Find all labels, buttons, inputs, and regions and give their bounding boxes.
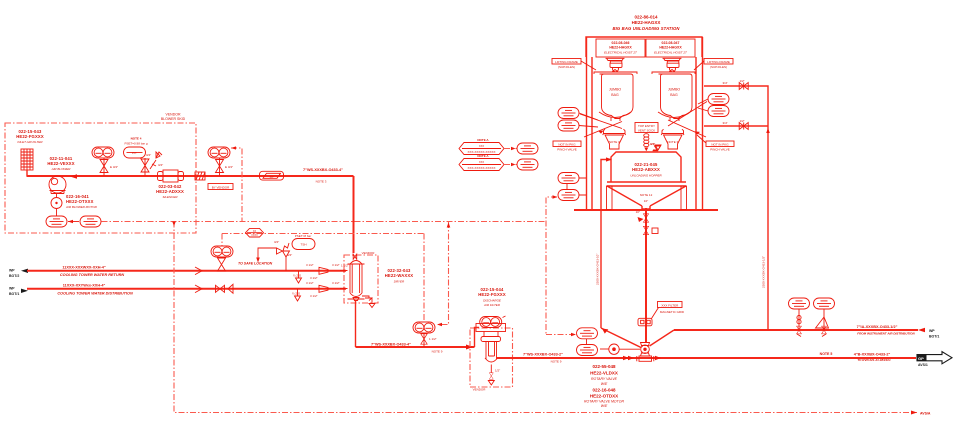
svg-text:TSH: TSH [301,243,307,247]
svg-text:XX: XX [253,230,257,233]
svg-text:JUMBO: JUMBO [668,88,681,92]
svg-text:NOTE 3: NOTE 3 [316,180,327,184]
svg-text:BOT/1: BOT/1 [9,292,19,296]
svg-text:DISCHARGE: DISCHARGE [483,299,502,303]
svg-text:3/4": 3/4" [650,142,655,146]
svg-text:2300-XXXBX-O433-1/2": 2300-XXXBX-O433-1/2" [762,256,766,288]
svg-text:3 1/2": 3 1/2" [306,263,314,267]
svg-text:022-16-048: 022-16-048 [592,388,616,393]
svg-text:022-86-014: 022-86-014 [634,15,658,20]
svg-text:HE22-FGXXX: HE22-FGXXX [16,134,44,139]
svg-text:(SUP.FILES): (SUP.FILES) [710,65,727,69]
svg-text:E 3/4": E 3/4" [225,165,233,169]
svg-text:VENT SOCK: VENT SOCK [638,128,655,132]
svg-text:1 1/2": 1 1/2" [429,337,437,341]
svg-text:PINCH VALVE: PINCH VALVE [710,148,729,152]
svg-text:4"B-XXXBX-O433-2": 4"B-XXXBX-O433-2" [854,352,891,356]
svg-text:NOTE 3: NOTE 3 [609,140,620,144]
svg-text:1 1/2": 1 1/2" [341,264,349,268]
svg-text:HE22-OTXXX: HE22-OTXXX [66,199,94,204]
svg-text:11XXX-XXXWXX-XXH-4": 11XXX-XXXWXX-XXH-4" [62,265,106,269]
svg-text:3 1/2": 3 1/2" [310,276,318,280]
svg-text:NOTE 5: NOTE 5 [820,352,833,356]
svg-text:BAG: BAG [670,93,678,97]
svg-text:LIFTING FRAME: LIFTING FRAME [707,60,730,64]
svg-text:11XXX-XXYWxx-XXH-4": 11XXX-XXYWxx-XXH-4" [63,283,106,287]
svg-text:FROM INSTRUMENT AIR DISTRIBUTI: FROM INSTRUMENT AIR DISTRIBUTION [857,332,915,336]
svg-text:W/E: W/E [601,382,608,386]
svg-text:WP: WP [929,329,935,333]
svg-text:HE22-HAGXX: HE22-HAGXX [659,46,682,50]
svg-text:3/4": 3/4" [274,240,279,244]
svg-text:ELECTRICAL HOIST 2T: ELECTRICAL HOIST 2T [654,51,688,55]
svg-text:7"WS-XXXBX-O433-4": 7"WS-XXXBX-O433-4" [303,168,343,172]
svg-text:½ 2 G: ½ 2 G [292,292,301,296]
svg-text:022-55-048: 022-55-048 [592,364,616,369]
svg-text:XXX: XXX [479,144,484,148]
svg-text:3 1/2": 3 1/2" [310,294,318,298]
svg-text:3 1/2": 3 1/2" [306,281,314,285]
svg-text:HE22-FGXXX: HE22-FGXXX [478,292,506,297]
svg-text:WP: WP [9,287,15,291]
svg-text:3/4": 3/4" [723,121,728,125]
svg-text:PIT: PIT [132,151,137,155]
svg-text:E 3/4": E 3/4" [110,165,118,169]
svg-text:3/4": 3/4" [723,81,728,85]
svg-text:3 1/2": 3 1/2" [332,281,340,285]
svg-text:W/E: W/E [601,404,608,408]
svg-text:XXX: XXX [479,160,484,164]
svg-text:½ 2 G: ½ 2 G [293,274,302,278]
svg-text:HE22-OTDXX: HE22-OTDXX [590,394,618,399]
svg-text:NOTE 12: NOTE 12 [640,193,653,197]
svg-text:GP: GP [918,356,924,361]
svg-text:PINCH VALVE: PINCH VALVE [557,148,576,152]
svg-text:BOT/2: BOT/2 [9,274,19,278]
svg-text:COOLING TOWER WATER DISTRIBUTI: COOLING TOWER WATER DISTRIBUTION [57,292,133,296]
svg-text:3/4": 3/4" [287,253,292,257]
svg-text:VENDOR: VENDOR [473,388,487,392]
svg-text:7"WS-XXXBX-O433-4": 7"WS-XXXBX-O433-4" [371,342,411,346]
svg-text:UNLOADING HOPPER: UNLOADING HOPPER [630,174,662,178]
svg-text:ROTARY VALVE: ROTARY VALVE [591,377,618,381]
svg-text:NOTE A: NOTE A [477,154,489,158]
svg-text:(SUP.FILES): (SUP.FILES) [558,65,575,69]
svg-text:VENDOR: VENDOR [166,113,181,117]
svg-text:LIFTING FRAME: LIFTING FRAME [555,60,578,64]
svg-text:3/4": 3/4" [158,163,163,167]
svg-text:1/2": 1/2" [740,79,745,83]
svg-text:AIR BLOWER MOTOR: AIR BLOWER MOTOR [65,205,98,209]
svg-text:NOTE 9: NOTE 9 [432,350,443,354]
svg-text:HE22-HAGXX: HE22-HAGXX [632,20,661,25]
svg-text:HE22-WAXXX: HE22-WAXXX [385,273,414,278]
svg-text:AIR FILTER: AIR FILTER [483,303,501,307]
svg-text:3/4": 3/4" [146,153,151,157]
svg-text:NOT IN PKG: NOT IN PKG [558,142,576,146]
svg-text:XXX FILTER: XXX FILTER [661,303,679,307]
svg-text:TO SAFE LOCATION: TO SAFE LOCATION [238,262,273,266]
svg-text:PSET=0.98 bar g: PSET=0.98 bar g [124,142,147,146]
svg-text:NOT IN PKG: NOT IN PKG [711,142,729,146]
svg-text:HE22-HAGXX: HE22-HAGXX [609,46,632,50]
svg-text:SILENCER: SILENCER [162,195,178,199]
svg-text:1/2": 1/2" [495,369,500,373]
svg-text:DRYER: DRYER [394,280,405,284]
svg-text:COOLING TOWER WATER RETURN: COOLING TOWER WATER RETURN [60,273,124,277]
svg-text:NOTE 3: NOTE 3 [667,140,678,144]
svg-text:MAGNETIC GRID: MAGNETIC GRID [660,310,685,314]
svg-text:022-08-047: 022-08-047 [662,41,680,45]
svg-text:AVS/1: AVS/1 [918,363,928,367]
svg-text:7"WS-XXXBX-O433-2": 7"WS-XXXBX-O433-2" [523,353,563,357]
svg-text:BOT/1: BOT/1 [929,335,939,339]
svg-text:HE22-VEXXX: HE22-VEXXX [47,161,74,166]
svg-text:WP: WP [9,269,15,273]
svg-text:XP: XP [268,175,273,179]
svg-text:AVS/A: AVS/A [920,412,931,416]
svg-text:ROTARY VALVE MOTOR: ROTARY VALVE MOTOR [584,400,624,404]
svg-text:XXXX: XXXX [251,234,258,237]
svg-text:TO RVN 021-21-084/101: TO RVN 021-21-084/101 [857,358,891,362]
svg-text:NOTE A: NOTE A [477,138,489,142]
svg-text:BAG: BAG [611,93,619,97]
svg-text:BIG BAG UNLOADING STATION: BIG BAG UNLOADING STATION [612,26,680,31]
svg-text:HE22-ABXXX: HE22-ABXXX [632,167,660,172]
svg-text:7"IA-XXXBX-O433-1/2": 7"IA-XXXBX-O433-1/2" [857,325,898,329]
svg-text:INLET AIR FILTER: INLET AIR FILTER [17,140,43,144]
svg-text:HE22-ADXXX: HE22-ADXXX [156,189,184,194]
svg-text:HE22-VLDXX: HE22-VLDXX [590,371,618,376]
svg-text:PSET=8 bar: PSET=8 bar [295,234,311,238]
svg-text:XXX-XXXXX-XXXXX: XXX-XXXXX-XXXXX [467,166,495,170]
svg-text:BY VENDOR: BY VENDOR [212,185,230,189]
svg-text:022-08-046: 022-08-046 [612,41,630,45]
svg-text:2300-XXXBX-O433-10": 2300-XXXBX-O433-10" [596,254,600,285]
svg-text:AIR BLOWER: AIR BLOWER [51,167,72,171]
svg-text:BLOWER SKID: BLOWER SKID [161,117,186,121]
svg-text:10": 10" [644,199,648,203]
svg-text:3 1/2": 3 1/2" [332,263,340,267]
svg-text:VENDOR: VENDOR [362,251,376,255]
svg-text:1/2": 1/2" [740,119,745,123]
svg-text:NOTE 4: NOTE 4 [131,137,142,141]
svg-text:JUMBO: JUMBO [609,88,622,92]
svg-text:NOTE 9: NOTE 9 [551,360,562,364]
svg-text:ELECTRICAL HOIST 2T: ELECTRICAL HOIST 2T [604,51,638,55]
